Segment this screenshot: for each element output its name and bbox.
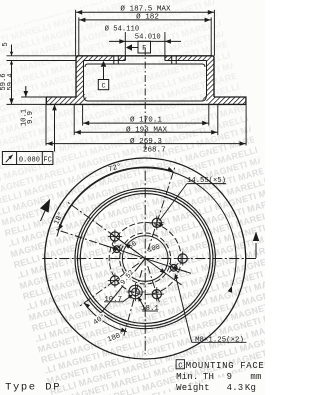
wheel stud hole 2 (&#216;14.55) xyxy=(150,216,164,230)
hat plate underside xyxy=(84,60,207,62)
vertical centerline xyxy=(144,171,146,354)
hat outer outline xyxy=(76,56,214,97)
svg-text:59.4: 59.4 xyxy=(7,73,15,90)
brake disc hat top plate (section hatch) xyxy=(76,56,214,61)
svg-text:FC: FC xyxy=(43,157,51,165)
M8 service hole B xyxy=(169,263,178,272)
180&#176; label xyxy=(106,330,126,345)
M8 service hole A xyxy=(112,245,121,254)
svg-text:Min.: Min. xyxy=(176,372,198,382)
drum circle xyxy=(80,194,210,324)
hub bore circle xyxy=(122,236,168,282)
section direction arrow xyxy=(253,232,259,258)
40&#176; label xyxy=(92,312,108,327)
dimension 59.6/59.4 overall height xyxy=(0,61,15,105)
M8 axis -18&#176; xyxy=(179,270,191,274)
drum inner surface line xyxy=(85,64,205,67)
section centerline xyxy=(144,48,146,152)
hat middle circle xyxy=(78,191,213,326)
svg-text:0.080: 0.080 xyxy=(19,157,40,165)
note C MOUNTING FACE xyxy=(176,360,264,371)
hat wall inner edges xyxy=(84,61,207,102)
dimension Ø 193 MAX xyxy=(74,104,218,135)
note Type DP xyxy=(5,382,61,394)
label 18.1 xyxy=(138,296,159,313)
M8 axis 162&#176; xyxy=(55,229,111,247)
web line xyxy=(88,100,202,102)
note Weight 4.3 Kg xyxy=(176,383,256,393)
wheel stud hole 5 (&#216;14.55) xyxy=(150,287,164,301)
bolt circle PCD 100 (dashed) xyxy=(109,223,181,295)
hat left wall (section hatch) xyxy=(76,61,88,102)
svg-text:Ø 193 MAX: Ø 193 MAX xyxy=(126,125,167,134)
svg-text:DP: DP xyxy=(45,382,61,394)
datum F flag xyxy=(126,41,151,53)
runout leader to friction surface xyxy=(52,104,57,151)
disc outer outline xyxy=(46,97,246,104)
angle arc 40&#176; xyxy=(84,303,127,332)
svg-text:9.9: 9.9 xyxy=(27,111,35,124)
stud axis 144&#176; xyxy=(67,202,139,254)
locating hole &#216;10.7/18.1 xyxy=(127,283,145,301)
stud axis 288&#176; xyxy=(148,266,160,302)
svg-text:Kg: Kg xyxy=(245,383,256,393)
wheel stud hole 3 (&#216;14.55) xyxy=(108,230,122,244)
label 14.55(x5) xyxy=(159,177,226,227)
hat right wall (section hatch) xyxy=(202,61,214,102)
svg-text:Ø 54.110: Ø 54.110 xyxy=(105,24,140,33)
svg-text:9: 9 xyxy=(227,372,232,382)
svg-text:Ø 269.3: Ø 269.3 xyxy=(130,137,162,146)
stud hole edges in plate xyxy=(114,56,176,64)
note Min. TH 9 mm xyxy=(176,372,262,382)
datum C leader xyxy=(98,61,108,91)
svg-text:mm: mm xyxy=(250,372,261,382)
dimension Ø 54.110/54.010 xyxy=(105,24,181,60)
runout tolerance frame 0.080 FC xyxy=(2,152,53,165)
svg-text:Weight: Weight xyxy=(176,383,210,393)
svg-text:5: 5 xyxy=(2,42,10,46)
72&#176; label xyxy=(107,162,122,174)
svg-text:268.7: 268.7 xyxy=(143,146,166,154)
svg-text:F: F xyxy=(142,45,146,53)
hat outer circle xyxy=(75,188,215,328)
svg-text:TH: TH xyxy=(203,372,214,382)
svg-text:4.3: 4.3 xyxy=(227,383,244,393)
svg-text:C: C xyxy=(101,82,105,90)
svg-text:Ø 182: Ø 182 xyxy=(136,13,159,22)
svg-text:10.7: 10.7 xyxy=(104,296,122,304)
svg-text:M8×1.25(×2): M8×1.25(×2) xyxy=(195,336,244,344)
wheel stud hole 4 (&#216;14.55) xyxy=(108,274,122,288)
friction disc left segment (section hatch) xyxy=(46,97,83,104)
bore edges xyxy=(125,56,165,61)
label 10.7 xyxy=(104,294,133,304)
svg-text:Ø 170.1: Ø 170.1 xyxy=(130,116,162,125)
horizontal centerline xyxy=(42,258,256,260)
dimension 9.52 xyxy=(96,259,145,320)
dimension 60 (hub recess) xyxy=(109,232,182,285)
svg-text:Type: Type xyxy=(5,382,37,394)
dimension 10.1/9.9 disc thickness xyxy=(7,86,47,126)
angle arc 72&#176;/18&#176; xyxy=(58,167,173,230)
svg-text:C: C xyxy=(178,362,182,370)
disc outer circle xyxy=(45,158,246,359)
rotation direction arrow (heavy) xyxy=(40,199,50,221)
svg-text:54.010: 54.010 xyxy=(135,34,161,42)
dimension 100 PCD xyxy=(100,243,191,273)
svg-text:MOUNTING FACE: MOUNTING FACE xyxy=(186,361,265,371)
friction disc right segment (section hatch) xyxy=(207,97,246,104)
dimension Ø 182 xyxy=(79,13,211,56)
stud axis 72&#176; xyxy=(148,167,175,251)
label M8x1.25(x2) xyxy=(174,273,246,344)
dimension Ø 269.3/268.7 xyxy=(46,105,246,154)
dimension 5 plate thickness xyxy=(2,42,76,64)
18&#176; label xyxy=(52,210,66,226)
hub recess dashed circle xyxy=(120,233,171,284)
dimension Ø 170.1 xyxy=(83,104,209,125)
dimension Ø 187.5 MAX xyxy=(76,5,215,56)
angle arc 180&#176; xyxy=(57,168,236,293)
stud axis 216&#176; xyxy=(79,263,139,307)
service hole axis 254&#176; xyxy=(123,270,142,337)
svg-text:Ø 187.5 MAX: Ø 187.5 MAX xyxy=(120,5,171,14)
wheel stud hole 1 (&#216;14.55) xyxy=(176,252,190,266)
